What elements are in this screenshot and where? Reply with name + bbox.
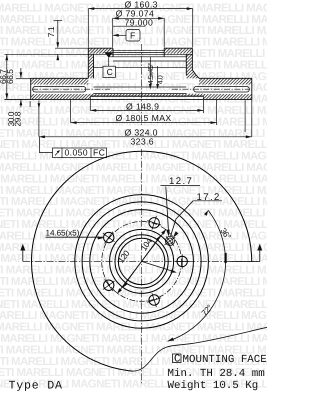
bolt hole 3 bottom-left	[99, 275, 119, 295]
dimension dia 148.9 arrows	[90, 109, 203, 112]
svg-text:Weight 10.5 Kg: Weight 10.5 Kg	[168, 380, 259, 392]
section: hat right wall inner	[185, 54, 187, 75]
angle arc end arrow 36	[204, 210, 208, 216]
svg-text:17.2: 17.2	[197, 192, 221, 203]
svg-text:MOUNTING FACE: MOUNTING FACE	[183, 354, 267, 366]
svg-text:MAGNETI MARELLI MAGNETI MARELL: MAGNETI MARELLI MAGNETI MARELLI MAGNETI …	[0, 287, 267, 299]
section: vent right outer end	[247, 87, 249, 93]
dimension 66.7 66.5 line	[6, 54, 8, 99]
dimension 104 diagonal line	[123, 235, 161, 287]
section: ring outer face left	[30, 78, 32, 99]
dimension 66.7 arrows	[5, 54, 8, 99]
chamfer dim 4.5x45 leader	[149, 57, 151, 86]
front view circle dia 104	[110, 229, 174, 293]
section: ring bottom plate hatch right	[203, 94, 251, 99]
section: vent channel bottom line	[35, 91, 247, 93]
bolt hole 5 top	[145, 214, 163, 232]
svg-text:C: C	[107, 67, 114, 77]
angle arc zero tick	[225, 253, 227, 263]
section: vent channel top line	[35, 86, 247, 88]
front view circle dia 148.9	[90, 210, 194, 314]
section: hat left wall hatch	[88, 54, 93, 78]
dimension 30.0 29.8 lines	[16, 68, 31, 108]
section: bore right edge	[163, 48, 165, 57]
bolt hole 2 bottom	[145, 291, 163, 309]
front view bolt circle dia 120 dash-dot	[102, 222, 182, 302]
dimension dia 160.3 arrows	[88, 7, 192, 10]
section: ring top plate hatch right	[199, 78, 252, 84]
datum C leader	[108, 58, 110, 67]
svg-text:MAGNETI MARELLI MAGNETI MARELL: MAGNETI MARELLI MAGNETI MARELLI MAGNETI …	[0, 265, 267, 277]
dimension dia 324.0 arrows	[39, 135, 252, 138]
section: hat left wall inner	[93, 54, 95, 78]
svg-text:MAGNETI MARELLI MAGNETI MARELL: MAGNETI MARELLI MAGNETI MARELLI MAGNETI …	[0, 333, 267, 345]
dimension 7.1 arrows	[56, 42, 59, 60]
dimension 30.0 arrows	[20, 72, 23, 105]
svg-text:FC: FC	[93, 148, 105, 158]
svg-text:Ø 148.9: Ø 148.9	[126, 101, 159, 111]
svg-text:4.0: 4.0	[155, 75, 164, 84]
svg-text:4.5x45°: 4.5x45°	[146, 63, 155, 85]
leader 14.65 x5 with arrow	[46, 236, 104, 238]
leader 17.2	[171, 201, 194, 237]
section: hat right wall outer	[192, 48, 199, 78]
left inspection arrow	[22, 249, 24, 262]
section: vent right inner end	[194, 87, 196, 93]
section: extension line hat top left	[55, 47, 88, 49]
datum C box	[103, 66, 115, 77]
dia 104 radial arrow	[142, 261, 174, 271]
svg-text:79.000: 79.000	[125, 17, 154, 27]
section: ring bottom plate hatch left	[31, 94, 91, 99]
section: hat top surface	[88, 47, 192, 49]
bolt hole 1 right	[175, 254, 189, 268]
front view circle dia 193	[75, 195, 209, 329]
svg-text:MAGNETI MARELLI MAGNETI MARELL: MAGNETI MARELLI MAGNETI MARELLI MAGNETI …	[0, 253, 267, 265]
section: ring top surface left	[31, 77, 89, 79]
section: ring top surface right	[199, 77, 252, 79]
datum F box	[126, 30, 140, 42]
section: hat plate hatch left	[88, 48, 113, 53]
section: hat left wall outer	[87, 48, 89, 78]
front view bore chamfer circle	[118, 238, 164, 284]
svg-text:66.5: 66.5	[5, 69, 15, 84]
dimension 79.000 lower line with left arrow	[113, 25, 146, 27]
dimension dia 79.074 upper line with right arrow	[113, 18, 165, 47]
section: hat plate hatch right	[164, 48, 192, 53]
label C mounting face box	[173, 354, 182, 363]
section: hat interior line	[94, 66, 187, 68]
front view horizontal centerline	[23, 260, 260, 262]
svg-text:MAGNETI MARELLI MAGNETI MARELL: MAGNETI MARELLI MAGNETI MARELLI MAGNETI …	[0, 242, 267, 254]
section: vent left inner end	[84, 87, 86, 93]
svg-text:Type DA: Type DA	[9, 380, 63, 393]
front view bore circle dia 79	[115, 235, 168, 288]
section: hub boss bottom line	[113, 60, 186, 62]
svg-text:Min. TH 28.4 mm: Min. TH 28.4 mm	[168, 368, 265, 380]
front view outer circle dia 324	[32, 151, 252, 371]
section: ring top plate hatch left	[31, 78, 89, 84]
dimension dia 148.9 line	[90, 99, 203, 113]
angle arc end arrow 72	[168, 338, 175, 342]
runout FC leader	[40, 137, 53, 153]
wavy break line	[133, 327, 267, 371]
chamfer dim 4.0 leader	[157, 66, 159, 86]
extension stub ring edge left	[29, 101, 31, 107]
front view circle dia 180.5	[82, 202, 201, 321]
svg-text:323.6: 323.6	[131, 136, 155, 146]
section: interior line above recess	[94, 86, 187, 88]
section: disc bottom surface line	[5, 98, 252, 100]
dimension dia 324.0 line	[38, 103, 41, 108]
section: boss line upper	[109, 56, 186, 58]
runout frame box	[53, 148, 107, 158]
section: recess step left	[89, 96, 91, 99]
svg-text:MAGNETI MARELLI MAGNETI MARELL: MAGNETI MARELLI MAGNETI MARELLI MAGNETI …	[0, 162, 267, 174]
bolt hole 4 top-left	[99, 227, 119, 247]
svg-text:MAGNETI MARELLI MAGNETI MARELL: MAGNETI MARELLI MAGNETI MARELLI MAGNETI …	[0, 276, 267, 288]
runout symbol arrow	[55, 151, 60, 156]
section vertical centerline	[141, 44, 143, 384]
angle dimension arc 36 and 72 deg	[168, 210, 226, 341]
svg-text:0.050: 0.050	[65, 148, 89, 158]
svg-text:14.65(x5): 14.65(x5)	[46, 229, 80, 238]
svg-text:MAGNETI MARELLI MAGNETI MARELL: MAGNETI MARELLI MAGNETI MARELLI MAGNETI …	[0, 173, 267, 185]
svg-text:F: F	[130, 31, 136, 41]
lock pin hole inner circle	[167, 238, 173, 244]
section: center bottom plate hatch	[90, 94, 203, 97]
section: recess step right	[202, 96, 204, 99]
section: hat right wall hatch	[186, 54, 199, 78]
section: ring outer face right	[251, 78, 253, 99]
dimension dia 160.3 line	[88, 9, 192, 48]
section: bore left edge	[112, 48, 114, 57]
datum C symbol triangle	[104, 52, 113, 57]
section: interior bottom line	[94, 93, 187, 95]
lock pin hole outer circle	[165, 236, 174, 245]
section: vent left closed end	[33, 87, 35, 93]
svg-text:7.1: 7.1	[46, 26, 56, 37]
section: bore chamfer lines	[113, 50, 164, 52]
svg-text:29.8: 29.8	[13, 111, 23, 126]
section: mounting face line	[5, 53, 193, 55]
dimension 7.1 vertical line	[54, 20, 63, 60]
section: vent centerline dash-dot	[32, 88, 250, 90]
section: recess floor line	[90, 95, 203, 97]
dimension dia 180.5 arrows	[71, 121, 217, 124]
lock pin hole cross ticks	[165, 236, 176, 245]
datum F leader with arrow	[113, 34, 126, 36]
svg-text:C: C	[174, 354, 181, 366]
dimension 120 diagonal line	[117, 229, 166, 294]
right inspection arrow	[230, 250, 260, 262]
dimension dia 180.5 line	[71, 99, 217, 125]
svg-text:Ø 180.5 MAX: Ø 180.5 MAX	[116, 113, 172, 123]
leader 12.7	[166, 187, 169, 236]
